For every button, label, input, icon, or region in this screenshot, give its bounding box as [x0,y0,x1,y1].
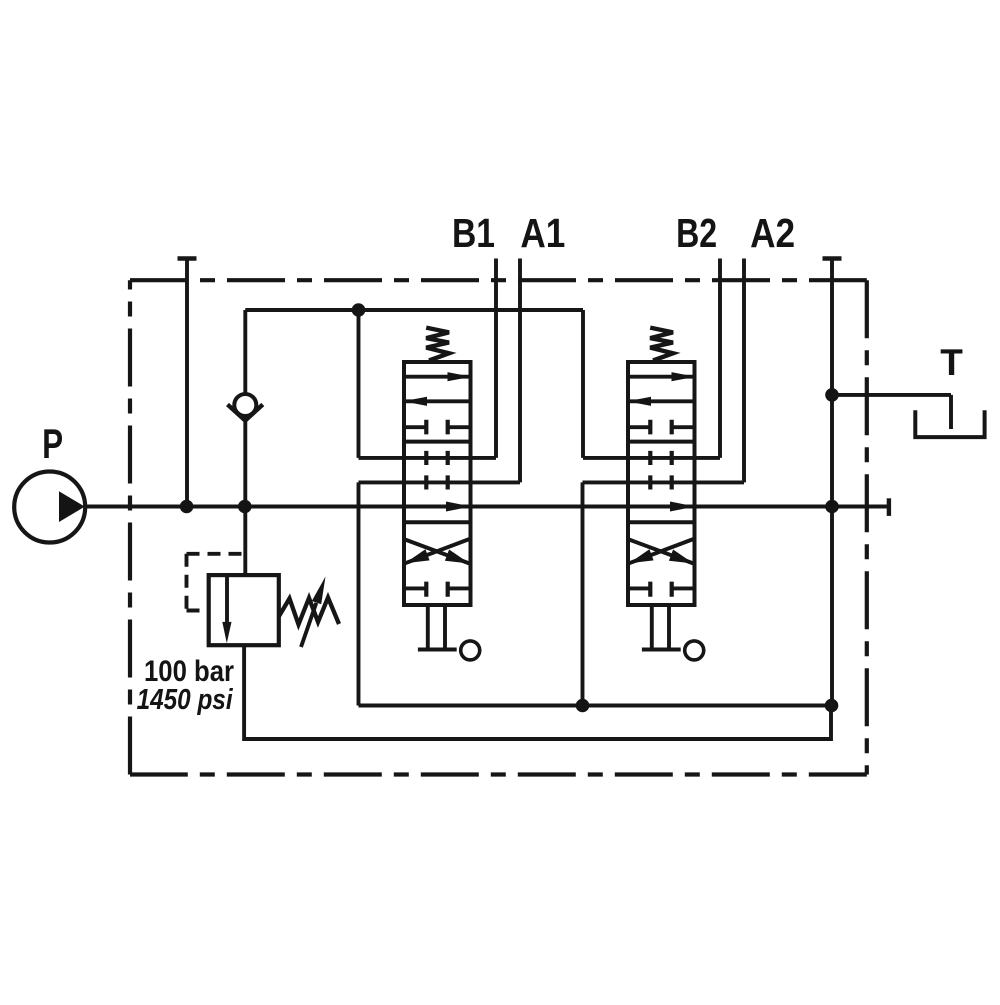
valve V1 roller [461,641,480,660]
valve V2 arrow left (section 2) [628,399,695,403]
wire valve2 A-row down-leg to tank line [581,482,585,705]
wire valve1 A-row down-leg to tank line [357,482,361,705]
wire valve1 A-row horizontal [359,480,521,484]
wire bypass down-leg to valve2 [581,310,585,458]
valve V1 crossed arrows section [405,539,470,564]
tank T symbol [915,410,984,437]
valve V2 roller [685,641,704,660]
svg-text:A1: A1 [520,210,565,256]
port line B1 [494,259,498,458]
port line A1 [518,259,522,483]
valve V2 actuator stem [642,605,681,650]
valve V2 closed-port bars row A [650,475,671,489]
port line A2 [742,259,746,483]
wire valve1 feed down-leg [357,310,361,458]
valve V2 closed-port bars row B [650,451,671,465]
junction: valve2 down-leg on tank line [576,699,590,713]
valve V1 closed-port bars row B [426,451,447,465]
wire P supply line [85,505,889,509]
wire relief return line [244,645,831,739]
wire valve1 B-row horizontal [359,456,497,460]
wire top bypass line [245,308,583,312]
valve V1 arrow left (section 2) [404,399,471,403]
junction: tank line right end [825,699,839,713]
plugged port line (left, above pump line) [178,259,197,507]
plug at P line right end [887,498,891,516]
svg-text:T: T [940,342,963,383]
valve V2 closed-port row 1 [628,420,695,435]
junction: valve1 feed on bypass [352,303,366,317]
valve V1 closed-port bars row A [426,475,447,489]
valve V2 spring [650,328,673,361]
valve V1 actuator stem [418,605,457,650]
valve V1 body [404,362,471,605]
check valve [228,394,263,421]
junction: P line on right port line [825,500,839,514]
enclosure boundary dash-dot [130,278,867,282]
valve V2 arrow right (section 1) [628,375,695,379]
valve V2 crossed arrows section [629,539,694,564]
valve V1 spring [426,328,449,361]
svg-text:1450 psi: 1450 psi [137,684,234,716]
junction: tank branch on right port line [825,388,839,402]
valve V2 closed-port row 4 [628,582,695,597]
valve V2 body [628,362,695,605]
valve V1 arrow right (section 1) [404,375,471,379]
valve V1 closed-port row 4 [404,582,471,597]
wire tank branch [832,395,951,429]
svg-text:P: P [42,420,63,467]
wire tank return line [359,704,833,708]
wire valve2 A-row horizontal [583,480,745,484]
valve V1 closed-port row 1 [404,420,471,435]
valve V1 P-flow arrow [446,502,471,512]
svg-text:B1: B1 [452,210,495,256]
junction: check branch on P line [238,500,252,514]
relief valve RV1 [187,554,340,647]
valve V2 P-flow arrow [670,502,695,512]
svg-text:A2: A2 [750,210,795,256]
junction: plugged port on P line [180,500,194,514]
port line B2 [718,259,722,458]
plugged port line (right) [823,259,842,706]
svg-text:B2: B2 [676,210,717,256]
pump P [14,472,85,543]
wire check-valve branch vertical [243,310,247,575]
wire valve2 B-row horizontal [583,456,720,460]
